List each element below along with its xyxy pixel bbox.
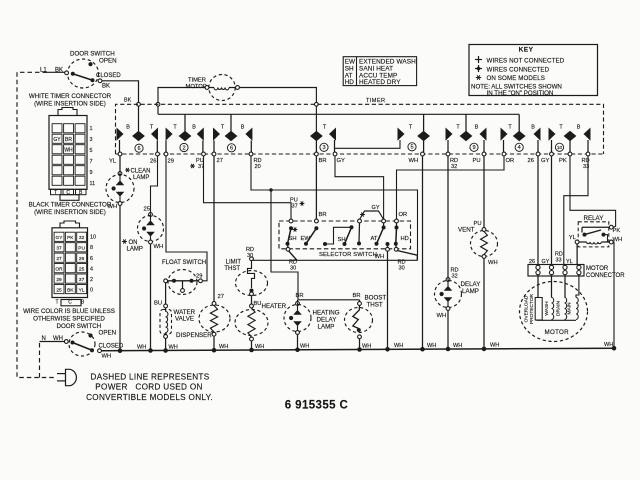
label PU 37 selector xyxy=(290,198,304,210)
label L1 xyxy=(40,68,47,74)
svg-text:5: 5 xyxy=(410,145,413,151)
selector middle SH contact xyxy=(323,223,361,246)
svg-text:VENT: VENT xyxy=(458,227,475,234)
svg-text:ON SOME MODELS: ON SOME MODELS xyxy=(487,75,545,82)
svg-text:WH: WH xyxy=(137,344,146,350)
heater xyxy=(235,308,268,341)
svg-text:B: B xyxy=(126,125,130,131)
svg-text:WH: WH xyxy=(604,342,613,348)
svg-text:WIRE COLOR IS BLUE UNLESS: WIRE COLOR IS BLUE UNLESS xyxy=(23,308,115,315)
svg-text:DRAIN: DRAIN xyxy=(556,301,562,316)
svg-text:THST: THST xyxy=(367,301,383,308)
timer contact 3 right triangle xyxy=(329,128,336,153)
door switch top dashed circle xyxy=(68,59,99,88)
label BR timer xyxy=(319,158,327,164)
svg-text:B: B xyxy=(192,125,196,131)
label CLEAN LAMP xyxy=(125,168,150,181)
svg-text:N: N xyxy=(42,336,46,342)
selector EW contact xyxy=(304,226,318,246)
selector bottom terminals xyxy=(286,247,398,251)
label RD 32 delay xyxy=(451,268,459,280)
label FLOAT SWITCH xyxy=(162,260,206,266)
svg-text:29: 29 xyxy=(168,159,174,165)
wire L1 to door switch xyxy=(43,71,65,73)
svg-text:YL: YL xyxy=(566,259,573,265)
label WH bus at 427 xyxy=(427,343,436,349)
svg-text:LAMP: LAMP xyxy=(318,324,335,331)
label WH selector xyxy=(375,254,385,260)
svg-text:PU: PU xyxy=(78,246,85,252)
label WH timer xyxy=(409,158,419,164)
selector AT contact xyxy=(375,223,386,246)
heater terminal xyxy=(250,304,254,308)
svg-text:WH: WH xyxy=(300,344,309,350)
wire float switch to water valve xyxy=(165,283,167,304)
svg-text:32: 32 xyxy=(79,235,85,241)
svg-text:IN THE "ON" POSITION: IN THE "ON" POSITION xyxy=(487,90,554,97)
timer contact 6b right triangle xyxy=(245,128,252,153)
svg-text:26: 26 xyxy=(150,159,156,165)
part number 6 915355 C xyxy=(285,400,348,412)
power cord neutral dashed riser xyxy=(39,342,41,378)
svg-text:T: T xyxy=(54,190,57,196)
label 29 xyxy=(168,159,174,165)
wire SH slant to RD30 xyxy=(289,251,298,260)
wire limit to heater xyxy=(251,296,253,305)
svg-text:BU: BU xyxy=(254,301,262,307)
svg-text:BR: BR xyxy=(319,212,327,218)
timer contact 3 diamond xyxy=(310,131,323,152)
float switch contacts xyxy=(164,279,203,293)
label DISPENSER xyxy=(176,332,212,339)
white timer connector xyxy=(49,108,95,201)
label BK at timer entry xyxy=(124,98,132,104)
timer contact 4 right triangle xyxy=(534,128,541,153)
label BR left xyxy=(296,293,304,299)
label OPEN bottom xyxy=(99,330,117,337)
label BLACK TIMER CONNECTOR xyxy=(29,202,112,217)
label YL relay xyxy=(569,235,577,241)
label GY timer xyxy=(337,158,346,164)
wire 29 to float switch xyxy=(166,156,207,281)
motor main winding xyxy=(576,275,579,320)
label RD 30 limit xyxy=(246,247,254,259)
wire boost thermostat to bus xyxy=(359,339,361,350)
svg-text:DOOR SWITCH: DOOR SWITCH xyxy=(70,51,115,58)
svg-text:HEATING: HEATING xyxy=(313,310,340,317)
water valve coil xyxy=(166,308,168,335)
key legend box xyxy=(469,45,598,97)
svg-text:(WIRE INSERTION SIDE): (WIRE INSERTION SIDE) xyxy=(34,101,106,108)
junction selector WH bus xyxy=(385,347,390,352)
wire PU to vent xyxy=(483,156,485,228)
timer contact 6 right triangle xyxy=(151,128,158,153)
svg-text:MOTOR: MOTOR xyxy=(586,266,609,272)
svg-text:3: 3 xyxy=(90,137,93,143)
label OPEN top xyxy=(99,58,117,65)
wire BR to selector xyxy=(315,156,317,219)
timer motor coil xyxy=(209,88,236,90)
label WH closed bottom xyxy=(102,354,112,360)
label WH vent xyxy=(488,260,498,266)
dispenser xyxy=(199,302,230,337)
junction bus right end xyxy=(612,346,617,351)
motor overload protector xyxy=(535,275,542,320)
timer contact 6 left triangle xyxy=(117,128,124,153)
svg-text:BK: BK xyxy=(67,287,74,293)
relay coil xyxy=(575,240,613,244)
door switch top arm and terminals xyxy=(65,71,102,83)
svg-text:HEATED DRY: HEATED DRY xyxy=(359,79,401,86)
svg-text:WH: WH xyxy=(255,344,264,350)
junction boost thermostat bus xyxy=(357,347,362,352)
svg-text:33: 33 xyxy=(556,258,562,264)
svg-text:SH: SH xyxy=(338,237,346,243)
label WH bus at 490 xyxy=(490,343,499,349)
label 27 xyxy=(217,158,223,164)
label BOOST THST xyxy=(365,295,387,309)
svg-text:10: 10 xyxy=(90,235,96,241)
svg-text:25: 25 xyxy=(79,267,85,273)
svg-text:27: 27 xyxy=(218,294,224,300)
svg-text:BK: BK xyxy=(102,84,110,90)
label DRAIN xyxy=(556,301,562,316)
svg-text:WHITE TIMER CONNECTOR: WHITE TIMER CONNECTOR xyxy=(29,93,112,100)
timer contact 2 right triangle xyxy=(197,128,204,153)
svg-text:25: 25 xyxy=(144,207,150,213)
selector top terminals xyxy=(289,219,398,223)
label HD selector xyxy=(401,236,409,242)
boost thermostat dashed circle xyxy=(345,308,373,333)
svg-text:WH: WH xyxy=(102,354,112,360)
svg-text:WH: WH xyxy=(219,344,228,350)
svg-text:BU: BU xyxy=(154,301,162,307)
water valve bottom terminal xyxy=(164,335,168,339)
svg-text:CLOSED: CLOSED xyxy=(99,344,124,350)
note dashed line power cord xyxy=(86,373,213,403)
timer contact 5 diamond xyxy=(417,114,430,152)
label PU xyxy=(473,158,481,164)
svg-text:8: 8 xyxy=(90,245,93,251)
wire on lamp to bottom bus xyxy=(150,244,152,351)
svg-text:AT: AT xyxy=(371,236,378,242)
junction heater bus xyxy=(249,348,254,353)
junction WH timer bus xyxy=(420,347,425,352)
wire 26 to motor connector xyxy=(537,156,539,265)
label BU heater xyxy=(254,301,262,307)
svg-text:WH: WH xyxy=(169,344,178,350)
svg-text:TIMER: TIMER xyxy=(366,98,385,104)
label WH N side xyxy=(53,336,63,342)
timer contact 6b left triangle xyxy=(213,128,220,153)
label WH delay lamp xyxy=(437,313,447,319)
svg-text:KEY: KEY xyxy=(519,47,534,54)
svg-text:WH: WH xyxy=(53,336,63,342)
timer contact 10 left triangle xyxy=(549,128,556,153)
svg-text:YL: YL xyxy=(109,159,117,165)
svg-text:GY: GY xyxy=(337,158,346,164)
timer bottom terminals xyxy=(118,152,590,156)
wire timer motor left to internal bus xyxy=(158,88,205,115)
selector HD contact xyxy=(394,223,399,248)
label RD 30 left xyxy=(289,260,297,272)
selector WH output xyxy=(386,242,390,251)
label RD 33 xyxy=(582,158,590,170)
timer internal link contact3 to contact5 xyxy=(335,140,401,148)
label LIMIT THST xyxy=(224,260,241,273)
label WH clean lamp xyxy=(108,204,118,210)
wire relay WH to bus xyxy=(612,242,615,348)
limit thermostat dashed circle xyxy=(236,271,268,296)
wire RD20 from timer xyxy=(251,156,418,260)
svg-text:6: 6 xyxy=(90,256,93,262)
timer contact 2 left triangle xyxy=(166,128,173,153)
svg-text:WH: WH xyxy=(64,148,73,154)
label BR right xyxy=(353,293,361,299)
svg-text:WH: WH xyxy=(409,158,419,164)
label OR xyxy=(506,158,515,164)
label SELECTOR SWITCH xyxy=(319,252,377,258)
label MAIN xyxy=(567,302,573,315)
door switch top open contact xyxy=(88,62,92,66)
wire BK door switch to timer contact 6 xyxy=(102,81,139,132)
svg-text:BK: BK xyxy=(124,98,132,104)
wire timer motor right to contact 3 xyxy=(240,88,317,132)
label PU 37 xyxy=(190,158,204,170)
timer contact 4 diamond xyxy=(513,114,526,141)
wire 27 to dispenser xyxy=(213,156,215,302)
label CLOSED top xyxy=(96,73,121,79)
wire WH timer to bus xyxy=(422,156,424,349)
label SH selector xyxy=(289,236,297,242)
label CLOSED bottom xyxy=(99,344,124,350)
label 25 on lamp xyxy=(144,207,150,213)
label BR selector xyxy=(319,212,327,218)
label WIRE COLOR NOTE xyxy=(23,308,115,323)
svg-text:FLOAT SWITCH: FLOAT SWITCH xyxy=(162,260,206,266)
label OR selector xyxy=(399,212,408,218)
motor drain winding xyxy=(565,275,567,320)
svg-text:TIMER: TIMER xyxy=(188,78,206,84)
wire heating delay lamp to bus xyxy=(297,334,299,349)
label TIMER MOTOR xyxy=(186,78,207,91)
wire relay YL to motor connector xyxy=(576,244,578,265)
terminal on timer top edge motor right xyxy=(315,102,319,106)
relay contact xyxy=(582,225,613,242)
svg-text:4: 4 xyxy=(90,266,93,272)
timer contact 6 diamond xyxy=(132,131,145,141)
svg-text:WIRES NOT CONNECTED: WIRES NOT CONNECTED xyxy=(487,58,565,65)
timer contact 6 number xyxy=(135,144,143,152)
label GY right xyxy=(541,158,550,164)
svg-text:OPEN: OPEN xyxy=(99,330,117,337)
svg-text:26: 26 xyxy=(529,259,535,265)
label ON LAMP xyxy=(122,239,143,252)
svg-text:PK: PK xyxy=(67,235,74,241)
timer contact 3 number xyxy=(320,143,328,151)
svg-text:WH: WH xyxy=(154,244,164,250)
wire GY to selector xyxy=(335,156,384,219)
timer contact 10 right triangle xyxy=(584,128,591,153)
label YL connector xyxy=(566,259,573,265)
junction heating delay lamp bus xyxy=(295,348,300,353)
svg-text:GY: GY xyxy=(372,205,380,211)
label 26 right xyxy=(528,158,534,164)
wire PU37 to selector xyxy=(204,156,292,219)
label HEATING DELAY LAMP xyxy=(313,310,340,331)
svg-text:10: 10 xyxy=(557,145,563,151)
label DOOR SWITCH top xyxy=(70,51,115,58)
svg-text:PK: PK xyxy=(559,158,567,164)
label EW selector xyxy=(301,236,311,242)
label WASH xyxy=(544,301,550,316)
svg-text:T: T xyxy=(55,299,58,305)
svg-text:32: 32 xyxy=(452,274,458,280)
wire heater to bus xyxy=(251,341,253,350)
svg-text:OR: OR xyxy=(506,158,515,164)
svg-text:WH: WH xyxy=(375,254,385,260)
svg-text:EW: EW xyxy=(301,236,311,242)
timer contact 2 number xyxy=(180,143,188,151)
svg-text:26: 26 xyxy=(528,158,534,164)
timer contact 4 letters xyxy=(508,125,535,131)
timer contact 5 left triangle xyxy=(398,128,405,141)
svg-text:B: B xyxy=(241,125,245,131)
label RD 30 right xyxy=(398,260,406,272)
motor dashed circle xyxy=(520,282,588,342)
svg-text:3: 3 xyxy=(322,145,325,151)
timer contact 6 letters xyxy=(126,125,154,131)
svg-text:(WIRE INSERTION SIDE): (WIRE INSERTION SIDE) xyxy=(34,209,106,216)
svg-text:DASHED LINE REPRESENTS: DASHED LINE REPRESENTS xyxy=(91,373,210,382)
svg-text:37: 37 xyxy=(292,204,298,210)
junction RD20 branch xyxy=(269,188,272,191)
selector GY jumper xyxy=(360,211,384,220)
svg-text:7: 7 xyxy=(90,159,93,165)
svg-text:PROTECTOR: PROTECTOR xyxy=(529,293,535,324)
label WH bus at 168.5 xyxy=(169,344,178,350)
water valve terminal xyxy=(164,304,168,308)
svg-text:BR: BR xyxy=(65,137,72,143)
label VENT xyxy=(458,227,475,234)
svg-text:CONVERTIBLE MODELS ONLY.: CONVERTIBLE MODELS ONLY. xyxy=(86,393,213,402)
svg-text:C: C xyxy=(68,299,72,305)
svg-text:GY: GY xyxy=(53,137,61,143)
label MOTOR CONNECTOR xyxy=(586,266,625,279)
svg-text:WH: WH xyxy=(453,343,462,349)
wire GY to motor connector xyxy=(551,156,553,265)
svg-text:29: 29 xyxy=(56,277,62,283)
svg-text:LAMP: LAMP xyxy=(133,175,149,181)
svg-text:PU: PU xyxy=(473,158,481,164)
svg-text:BK: BK xyxy=(55,68,63,74)
timer contact 5 letter xyxy=(409,125,413,131)
svg-text:32: 32 xyxy=(451,164,457,170)
svg-text:ON: ON xyxy=(129,240,138,246)
wire RD33 to motor connector xyxy=(564,156,588,265)
vent xyxy=(471,228,498,259)
svg-text:WH: WH xyxy=(394,343,403,349)
label RD 33 connector xyxy=(555,252,563,264)
label SH middle selector xyxy=(338,237,346,243)
timer contact 10 number xyxy=(555,143,563,151)
svg-text:LIMIT: LIMIT xyxy=(226,260,242,266)
svg-text:LAMP: LAMP xyxy=(127,247,143,253)
svg-text:26: 26 xyxy=(79,256,85,262)
motor connector box xyxy=(528,265,584,277)
timer motor dashed circle xyxy=(209,75,235,101)
timer motor terminals xyxy=(205,86,239,90)
svg-text:MAIN: MAIN xyxy=(567,302,573,315)
svg-text:LAMP: LAMP xyxy=(462,288,479,295)
svg-text:DELAY: DELAY xyxy=(461,281,481,288)
label WH bus at 300 xyxy=(300,344,309,350)
svg-text:GY: GY xyxy=(542,259,550,265)
wire PK to relay xyxy=(570,156,616,227)
label RELAY xyxy=(584,215,604,222)
bottom bus wire WH xyxy=(102,348,615,351)
junction clean lamp bus xyxy=(118,348,123,353)
label TIMER box xyxy=(366,98,385,104)
svg-text:OR: OR xyxy=(55,267,63,273)
label WATER VALVE xyxy=(174,309,196,323)
timer dashed box xyxy=(116,104,604,154)
svg-text:37: 37 xyxy=(79,277,85,283)
label BU water valve xyxy=(154,301,162,307)
power cord plug xyxy=(57,369,76,385)
svg-text:30: 30 xyxy=(290,266,296,272)
wire 26 to on lamp xyxy=(151,156,158,213)
timer contact 6b number xyxy=(227,144,235,152)
svg-text:CONNECTOR: CONNECTOR xyxy=(586,273,625,279)
svg-text:37: 37 xyxy=(56,246,62,252)
label MOTOR xyxy=(545,329,570,336)
label WH bus at 362 xyxy=(362,343,371,349)
svg-text:WH: WH xyxy=(427,343,436,349)
svg-text:30: 30 xyxy=(399,266,405,272)
door switch bottom dashed circle xyxy=(69,332,95,356)
selector switch dashed box xyxy=(279,221,411,249)
svg-text:L1: L1 xyxy=(40,68,47,74)
label YL xyxy=(109,159,117,165)
delay lamp xyxy=(435,278,462,311)
relay dashed box xyxy=(578,222,609,247)
timer contact 4 number xyxy=(515,143,523,151)
svg-text:CLEAN: CLEAN xyxy=(131,169,151,175)
svg-text:DOOR SWITCH: DOOR SWITCH xyxy=(57,323,102,330)
wire clean lamp to bottom bus xyxy=(119,206,121,351)
svg-text:BLACK TIMER CONNECTOR: BLACK TIMER CONNECTOR xyxy=(29,202,112,209)
label WH bus at 453 xyxy=(453,343,462,349)
svg-text:OTHERWISE SPECIFIED: OTHERWISE SPECIFIED xyxy=(33,316,105,323)
timer contact 9 number xyxy=(470,143,478,151)
svg-text:YL: YL xyxy=(79,287,85,293)
svg-text:PK: PK xyxy=(613,228,621,234)
label OVERLOAD PROTECTOR xyxy=(524,293,536,324)
wire water valve to bus xyxy=(165,338,167,350)
clean lamp xyxy=(106,172,134,206)
svg-text:HEATER: HEATER xyxy=(262,303,287,310)
svg-text:27: 27 xyxy=(217,158,223,164)
label DELAY LAMP xyxy=(461,281,481,295)
timer contact 9 right triangle xyxy=(480,128,487,153)
svg-text:RELAY: RELAY xyxy=(584,215,604,222)
legend cycle abbreviations box xyxy=(343,57,416,86)
label WH relay xyxy=(613,237,623,243)
wire RD20 branch to BR node xyxy=(271,190,298,300)
junction delay lamp bus xyxy=(446,347,451,352)
wire N to door switch xyxy=(40,341,65,343)
